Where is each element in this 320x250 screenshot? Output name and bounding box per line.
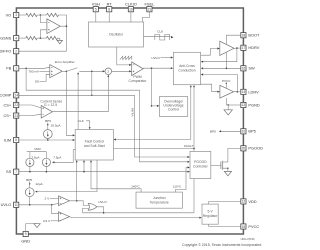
pin 10 BP5 [241, 129, 256, 134]
driver U7 HDRV [220, 41, 234, 55]
svg-text:BP5: BP5 [26, 178, 32, 182]
svg-text:700 mV: 700 mV [28, 70, 40, 74]
LDRV feedback into ACC [201, 75, 237, 92]
wire to node B [37, 37, 46, 39]
clock waveform symbol [155, 35, 170, 41]
svg-text:14: 14 [242, 90, 246, 94]
svg-text:11: 11 [14, 203, 18, 207]
pin 22 CS+ [4, 102, 19, 107]
svg-text:7.5µA: 7.5µA [53, 155, 62, 159]
svg-text:PGND: PGND [248, 102, 259, 107]
svg-text:Anti-Cross: Anti-Cross [179, 64, 195, 68]
pin 12 VDD [241, 199, 257, 204]
wires sources to SS line [29, 166, 31, 171]
SS branch up into fault control [83, 161, 85, 172]
wire 2V comparator output [70, 201, 89, 206]
svg-text:GND: GND [21, 238, 30, 243]
wire BP5 to current source [47, 123, 49, 130]
svg-text:and Soft-Start: and Soft-Start [84, 144, 105, 148]
FB junction [25, 68, 27, 70]
wire COMP pin [19, 94, 135, 96]
wire 0.9V comparator output to 5V regulator [70, 217, 202, 218]
svg-text:FSEL: FSEL [145, 2, 156, 7]
pin 4 GSNS [0, 36, 19, 41]
svg-text:CS+: CS+ [4, 102, 12, 107]
HDRV feedback into ACC [201, 48, 237, 62]
wire SS ref to error amp [40, 74, 50, 81]
svg-text:GSNS: GSNS [0, 36, 11, 41]
PGOOD controller block [190, 151, 211, 178]
svg-text:22: 22 [14, 103, 18, 107]
stub to right 7.5uA source [45, 152, 47, 159]
svg-text:BP5: BP5 [210, 130, 216, 134]
wire R4 to ground [58, 38, 60, 40]
wire BOOT rail [226, 35, 240, 44]
wire OV/UV to ACC (left) [190, 86, 192, 140]
svg-text:18: 18 [242, 34, 246, 38]
pin 3 VO [6, 12, 19, 17]
comparator U5 UVLO 2V [59, 196, 70, 206]
svg-text:VDD: VDD [34, 147, 41, 151]
svg-text:Fault Control: Fault Control [85, 140, 105, 144]
svg-text:VILIM: VILIM [130, 108, 134, 117]
wire CLK into fault control [86, 121, 90, 129]
wire current source to ILIM line [47, 138, 49, 140]
ground (PGND) [224, 110, 232, 115]
enable wire from fault control to 12uA source [36, 160, 97, 192]
pin 21 FSEL [145, 2, 156, 12]
svg-text:Conduction: Conduction [178, 69, 195, 73]
wire VDD pin to regulator [209, 201, 241, 204]
wire to node A [37, 14, 46, 16]
driver U8 LDRV [220, 85, 234, 98]
fault control and soft-start block [75, 130, 113, 161]
LDRV driver ground rail [225, 98, 227, 105]
wire ACC to HDRV driver [201, 49, 220, 56]
svg-text:COMP: COMP [0, 93, 12, 98]
pin 16 SW [241, 66, 255, 71]
svg-text:0.9 V: 0.9 V [43, 219, 51, 223]
wire UVLO to 0.9V comparator [52, 205, 59, 214]
wire into fault control right edge [114, 139, 191, 141]
gate output wire [97, 207, 104, 213]
gate second input from long line [83, 208, 89, 212]
clock arrow [171, 36, 173, 38]
wire 110C to PGOOD controller [175, 167, 189, 192]
overvoltage/undervoltage control block [159, 97, 187, 117]
svg-text:BP5: BP5 [248, 129, 255, 134]
op-amp U4 current sense amplifier [41, 106, 52, 119]
svg-text:9: 9 [25, 232, 27, 236]
oscillator ramp output stub [117, 47, 132, 65]
oscillator block [89, 22, 144, 47]
svg-text:Comparator: Comparator [129, 79, 148, 83]
CLK output wire [144, 35, 171, 37]
svg-text:UVLO: UVLO [151, 56, 160, 60]
chip outline border [16, 8, 243, 234]
svg-text:CS−: CS− [4, 113, 12, 118]
PGOOD open-drain MOSFET [211, 161, 229, 172]
svg-text:VO: VO [6, 12, 12, 17]
node B junction [40, 37, 42, 39]
summing node S [105, 68, 112, 75]
svg-text:23: 23 [14, 114, 18, 118]
svg-text:PGOOD: PGOOD [248, 146, 263, 151]
svg-text:LDRV: LDRV [248, 89, 259, 94]
pin 13 PGND [241, 102, 260, 107]
wire RT pin to oscillator [108, 12, 110, 22]
pin 2 DIFFO [0, 49, 19, 54]
resistor R2 (feedback) [47, 13, 59, 16]
svg-text:Copyright © 2015, Texas Instru: Copyright © 2015, Texas Instruments Inco… [182, 243, 261, 247]
svg-text:FAULT: FAULT [184, 144, 194, 148]
wire summing node to PWM comparator [112, 70, 132, 72]
svg-text:SS: SS [35, 80, 39, 84]
node A junction [40, 14, 42, 16]
pin 11 UVLO [1, 202, 19, 207]
GND analog ground stub [26, 224, 37, 232]
svg-text:Oscillator: Oscillator [109, 33, 124, 37]
svg-text:ILIM: ILIM [4, 137, 12, 142]
wire 2V comp output up to fault control [76, 161, 78, 201]
resistor R4 (to ground) [47, 36, 58, 39]
svg-text:BOOT: BOOT [248, 33, 260, 38]
wire UVLO into ACC [161, 57, 173, 59]
pin 9 GND [21, 231, 30, 243]
svg-text:8: 8 [108, 7, 110, 11]
wire current sense out to summing node [52, 75, 108, 111]
sawtooth ramp symbol [120, 56, 132, 59]
pin 19 CLKIO [125, 2, 137, 12]
pin 14 LDRV [241, 89, 259, 94]
wire PGND pin [226, 104, 241, 106]
wire feedback to output vertical [59, 15, 67, 26]
svg-text:CLK: CLK [157, 30, 164, 34]
svg-text:UVLO: UVLO [1, 202, 12, 207]
svg-text:7.5µA: 7.5µA [31, 155, 40, 159]
pin 18 BOOT [241, 33, 260, 38]
wire COMP sense into fault control [66, 95, 74, 135]
wire node B to non-inverting input [40, 30, 47, 38]
switch blade (fault disconnect) [67, 68, 77, 72]
wire 700mV to error amp [40, 70, 50, 72]
svg-text:VDD: VDD [248, 199, 256, 204]
svg-text:1: 1 [15, 67, 17, 71]
long UVLO line [83, 212, 195, 214]
svg-text:10: 10 [242, 130, 246, 134]
wire ACC to LDRV driver [201, 84, 220, 92]
svg-text:12: 12 [242, 200, 246, 204]
resistor R1 (VO input) [26, 13, 37, 16]
wire SS pin long to PGOOD [19, 171, 190, 173]
wire CS+ [19, 105, 41, 108]
summing junction dot [91, 71, 93, 73]
pin 23 CS&#8722; [4, 113, 19, 118]
svg-text:Error Amplifier: Error Amplifier [55, 60, 75, 64]
current source 12uA [25, 188, 34, 197]
ground (PGOOD FET) [224, 171, 231, 175]
svg-text:CLK: CLK [78, 119, 85, 123]
wire VSH pin to oscillator [95, 12, 97, 22]
svg-text:PVCC: PVCC [248, 224, 259, 229]
op-amp U2 error amplifier [50, 65, 62, 78]
svg-text:110°C: 110°C [173, 184, 182, 188]
svg-text:Control: Control [168, 108, 179, 112]
svg-text:SS: SS [6, 169, 12, 174]
enable wire from fault control to right source [52, 150, 75, 163]
svg-text:2: 2 [15, 50, 17, 54]
VDD rail [27, 151, 47, 153]
wire HDRV driver source rail to SW [225, 52, 227, 68]
current source 7.5uA (right) [42, 158, 50, 166]
svg-text:BP5: BP5 [45, 119, 51, 123]
svg-text:17: 17 [242, 46, 246, 50]
svg-text:PVCC: PVCC [222, 79, 231, 83]
wire FB sense to PGOOD [26, 68, 189, 162]
wire node A to inverting input [40, 15, 47, 23]
wire BP5 pin [219, 130, 241, 132]
wire PGOOD pin to MOSFET drain [228, 148, 241, 162]
wire FSEL pin to oscillator [142, 12, 149, 22]
PVCC stub to driver [225, 83, 227, 89]
anti-cross conduction block [173, 52, 200, 84]
svg-text:15: 15 [242, 225, 246, 229]
svg-text:21: 21 [148, 7, 152, 11]
pin 8 RT [107, 2, 113, 12]
svg-text:G = 12.5: G = 12.5 [44, 103, 57, 107]
svg-text:UVLO: UVLO [98, 200, 107, 204]
pin 1 FB [6, 66, 19, 71]
svg-text:DIFFO: DIFFO [0, 49, 11, 54]
wire CS- [19, 114, 41, 115]
svg-text:Temperature: Temperature [150, 200, 169, 204]
svg-text:20.5µA: 20.5µA [51, 124, 62, 128]
stub to left 7.5uA source [29, 152, 31, 159]
wire GSNS to resistor [19, 37, 26, 39]
wire EA node down to COMP line [91, 71, 93, 95]
wire HDRV driver output to pin [234, 47, 241, 49]
VILIM vertical wire [135, 95, 190, 157]
current source 20.5uA [43, 130, 52, 139]
op-amp U1 differential amplifier [47, 19, 60, 34]
wire PWM node down into OV/UV [152, 68, 159, 106]
wire UVLO pin [19, 203, 59, 204]
svg-text:5: 5 [95, 7, 97, 11]
EA output junction [66, 71, 68, 73]
fault/uvlo vertical to ACC [193, 86, 195, 213]
svg-text:140°C: 140°C [131, 184, 140, 188]
svg-text:Σ: Σ [107, 70, 109, 74]
wire SW pin to ACC [201, 67, 241, 69]
svg-text:RT: RT [107, 2, 113, 7]
comparator U6 UVLO 0.9V [59, 212, 70, 222]
svg-text:20: 20 [242, 147, 246, 151]
switch control from fault control [77, 73, 79, 129]
5-V regulator block [202, 204, 218, 224]
PGND ground stub [227, 105, 229, 110]
UVLO AND gate [88, 203, 97, 210]
svg-text:7: 7 [15, 170, 17, 174]
wire diff amp output to DIFFO [19, 26, 67, 51]
pin 20 PGOOD [241, 146, 263, 151]
wire error amp output [62, 70, 67, 72]
svg-text:13: 13 [242, 103, 246, 107]
junction temperature block [136, 192, 182, 208]
svg-text:Controller: Controller [193, 165, 209, 169]
ground (GND pin) [34, 224, 40, 228]
svg-text:6: 6 [15, 138, 17, 142]
wire 140C to fault control [91, 161, 141, 192]
svg-text:4: 4 [15, 36, 17, 40]
svg-text:SW: SW [248, 66, 255, 71]
pin 24 COMP [0, 93, 19, 98]
resistor R3 (GSNS input) [26, 36, 37, 39]
wire FB to error amp [19, 67, 50, 68]
svg-text:VSH: VSH [92, 2, 100, 7]
svg-text:CLKIO: CLKIO [125, 2, 137, 7]
wire switch to summing node [79, 70, 104, 72]
pin 7 SS [6, 169, 19, 174]
pin 5 VSH [92, 2, 100, 12]
svg-text:16: 16 [242, 67, 246, 71]
wire PWM output to anti-cross conduction [143, 67, 173, 69]
wire ILIM pin to fault control [19, 139, 75, 141]
svg-text:24: 24 [14, 94, 18, 98]
svg-text:19: 19 [129, 7, 133, 11]
current source 7.5uA (left) [26, 158, 34, 166]
pin 17 HDRV [241, 45, 260, 50]
wire source to UVLO line [29, 197, 31, 205]
FAULT wire [113, 147, 194, 149]
svg-text:HDRV: HDRV [248, 45, 259, 50]
svg-text:12µA: 12µA [35, 182, 43, 186]
wire PVCC pin to regulator [209, 224, 241, 226]
wire CLKIO pin to oscillator [130, 12, 132, 22]
svg-text:PGOOD: PGOOD [194, 160, 207, 164]
ground (diff amp reference) [57, 40, 62, 43]
wire VO to resistor [19, 14, 26, 16]
svg-text:Regulator: Regulator [203, 214, 219, 218]
wire LDRV driver output to pin [234, 91, 241, 93]
svg-text:UDG-07156: UDG-07156 [241, 237, 255, 241]
svg-text:Junction: Junction [153, 196, 166, 200]
pin 15 PVCC [241, 224, 260, 229]
svg-text:3: 3 [15, 13, 17, 17]
wire COMP to EA output [65, 71, 67, 95]
svg-text:FB: FB [6, 66, 11, 71]
comparator U3 PWM comparator [132, 62, 143, 76]
pin 6 ILIM [4, 137, 19, 142]
